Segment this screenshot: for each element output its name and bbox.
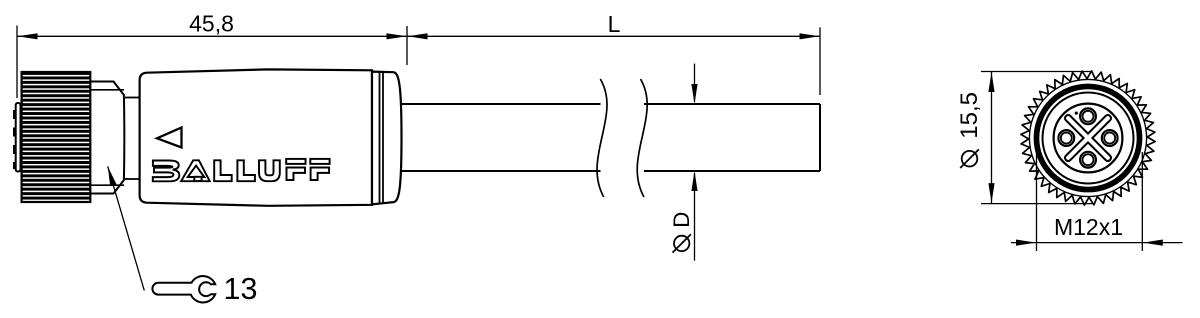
pin bottom <box>1080 152 1096 168</box>
dim M12x1 <box>1011 152 1183 251</box>
BALLUFF logo <box>153 159 330 181</box>
pin left <box>1058 130 1074 146</box>
inner circle <box>1043 93 1134 184</box>
letter F <box>310 159 329 164</box>
text dia 15,5 rotated <box>956 92 983 168</box>
face circle <box>1054 104 1123 173</box>
arrows top dims <box>18 33 820 39</box>
knurl base circle <box>1029 79 1146 196</box>
coupling nut knurled <box>22 72 91 202</box>
svg-text:15,5: 15,5 <box>956 92 983 139</box>
break line 2 <box>637 79 647 197</box>
break line 1 <box>597 79 607 197</box>
wrench symbol <box>152 276 215 302</box>
letter A <box>181 160 210 181</box>
thread tabs <box>13 110 17 169</box>
cable end cap <box>372 72 402 205</box>
front face strip <box>16 103 21 172</box>
letter F <box>286 159 305 164</box>
neck between hex and body <box>124 98 140 180</box>
thread ring solid <box>1036 86 1139 189</box>
orientation dot <box>1075 112 1078 115</box>
dim D cable <box>694 64 696 261</box>
svg-text:L: L <box>608 11 621 37</box>
leader line wrench <box>108 166 145 290</box>
cable <box>402 104 820 171</box>
pin right <box>1102 130 1118 146</box>
svg-text:D: D <box>669 212 694 228</box>
triangle marker <box>157 128 182 148</box>
dim line 45,8 <box>17 35 407 37</box>
dim 45,8 extension lines <box>17 26 820 99</box>
svg-text:M12x1: M12x1 <box>1054 214 1123 240</box>
pin top <box>1080 108 1096 124</box>
dim dia 15,5 <box>981 72 1092 204</box>
text dia D rotated <box>669 212 694 253</box>
svg-text:13: 13 <box>224 272 258 306</box>
dim line L <box>407 35 820 37</box>
knurl teeth ring <box>1021 71 1155 205</box>
letter L <box>237 160 255 181</box>
letter L <box>214 160 232 181</box>
svg-text:45,8: 45,8 <box>189 11 234 37</box>
hex nut <box>90 82 124 194</box>
letter B <box>153 161 180 182</box>
letter U <box>259 160 280 181</box>
coding cross <box>1044 94 1132 182</box>
body <box>140 69 372 205</box>
